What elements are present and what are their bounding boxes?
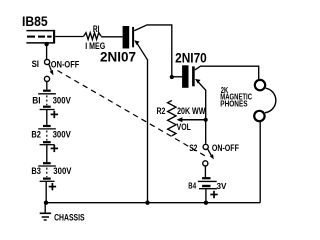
switch S2 bbox=[203, 144, 214, 166]
battery B1 bbox=[38, 91, 56, 110]
node: 1B85 bottom junction dot bbox=[44, 42, 48, 46]
svg-text:ON-OFF: ON-OFF bbox=[51, 59, 80, 69]
svg-text:R2: R2 bbox=[157, 106, 166, 116]
label 2K MAGNETIC PHONES bbox=[220, 86, 252, 109]
svg-text:IB85: IB85 bbox=[22, 14, 48, 29]
svg-text:S2: S2 bbox=[189, 143, 197, 153]
wire: Q1 collector to top node bbox=[134, 25, 172, 77]
node: B4 rail dot bbox=[204, 201, 208, 205]
svg-text:PHONES: PHONES bbox=[220, 100, 248, 109]
svg-text:2NI70: 2NI70 bbox=[175, 50, 207, 66]
wire: Q2 collector to phones bbox=[195, 66, 259, 79]
photocell PC1 body bbox=[26, 30, 55, 44]
chassis ground symbol bbox=[40, 203, 51, 220]
svg-text:BI: BI bbox=[32, 96, 40, 106]
wire: R1 to Q1 base bbox=[101, 36, 123, 38]
label + of B4 bbox=[210, 191, 217, 198]
wire: phones bottom to ground rail bbox=[259, 121, 261, 202]
wire: Q1 emitter with arrow bbox=[134, 40, 147, 203]
svg-text:RI: RI bbox=[93, 24, 100, 34]
svg-text:B3: B3 bbox=[31, 166, 41, 176]
ground rail wire bbox=[46, 202, 260, 204]
node: wiper junction dot bbox=[204, 118, 208, 122]
svg-text:B2: B2 bbox=[31, 130, 41, 140]
wire: B3 to ground rail bbox=[45, 181, 47, 202]
label + of B3 bbox=[49, 183, 56, 190]
node: Q1 emitter rail dot bbox=[145, 201, 149, 205]
battery B4 bbox=[198, 178, 217, 189]
svg-text:300V: 300V bbox=[53, 130, 71, 140]
svg-text:20K WW: 20K WW bbox=[177, 106, 206, 116]
svg-text:ON-OFF: ON-OFF bbox=[212, 143, 239, 153]
svg-text:3V: 3V bbox=[217, 181, 227, 191]
wire: B4 to ground rail bbox=[205, 189, 207, 203]
potentiometer R2 zigzag bbox=[168, 101, 176, 136]
svg-text:300V: 300V bbox=[53, 166, 71, 176]
svg-text:300V: 300V bbox=[53, 96, 71, 106]
battery B3 bbox=[38, 163, 56, 181]
wire: R2 wiper arm with arrow bbox=[177, 117, 206, 122]
headphones circles bbox=[254, 80, 276, 121]
ganged switch dashed link S1-S2 bbox=[58, 71, 205, 156]
battery B2 bbox=[38, 126, 56, 145]
wire: S2 to B4 bbox=[204, 166, 206, 177]
wire: 1B85 to S1 bbox=[46, 44, 48, 60]
transistor Q2 2N170 body bbox=[182, 65, 195, 88]
svg-text:2NI07: 2NI07 bbox=[100, 48, 136, 64]
svg-text:CHASSIS: CHASSIS bbox=[54, 212, 85, 222]
node: Q2 base junction dot bbox=[170, 75, 174, 79]
wire: B2 to B3 bbox=[46, 145, 48, 162]
svg-text:B4: B4 bbox=[188, 181, 196, 190]
label + of B2 bbox=[51, 145, 58, 152]
svg-text:VOL: VOL bbox=[177, 122, 192, 132]
switch S1 bbox=[44, 59, 53, 81]
wire: S1 to B1 bbox=[46, 82, 48, 90]
svg-text:SI: SI bbox=[32, 59, 39, 69]
label + of B1 bbox=[51, 111, 58, 118]
wire: B1 to B2 bbox=[46, 110, 48, 125]
resistor R1 bbox=[84, 33, 102, 40]
transistor Q1 2N107 body bbox=[123, 26, 135, 49]
wire: 1B85 output to R1 bbox=[55, 36, 84, 38]
wire: base of Q2 bbox=[172, 76, 182, 78]
wire: Q2 emitter with arrow bbox=[195, 79, 206, 144]
node: chassis junction dot bbox=[44, 201, 48, 205]
